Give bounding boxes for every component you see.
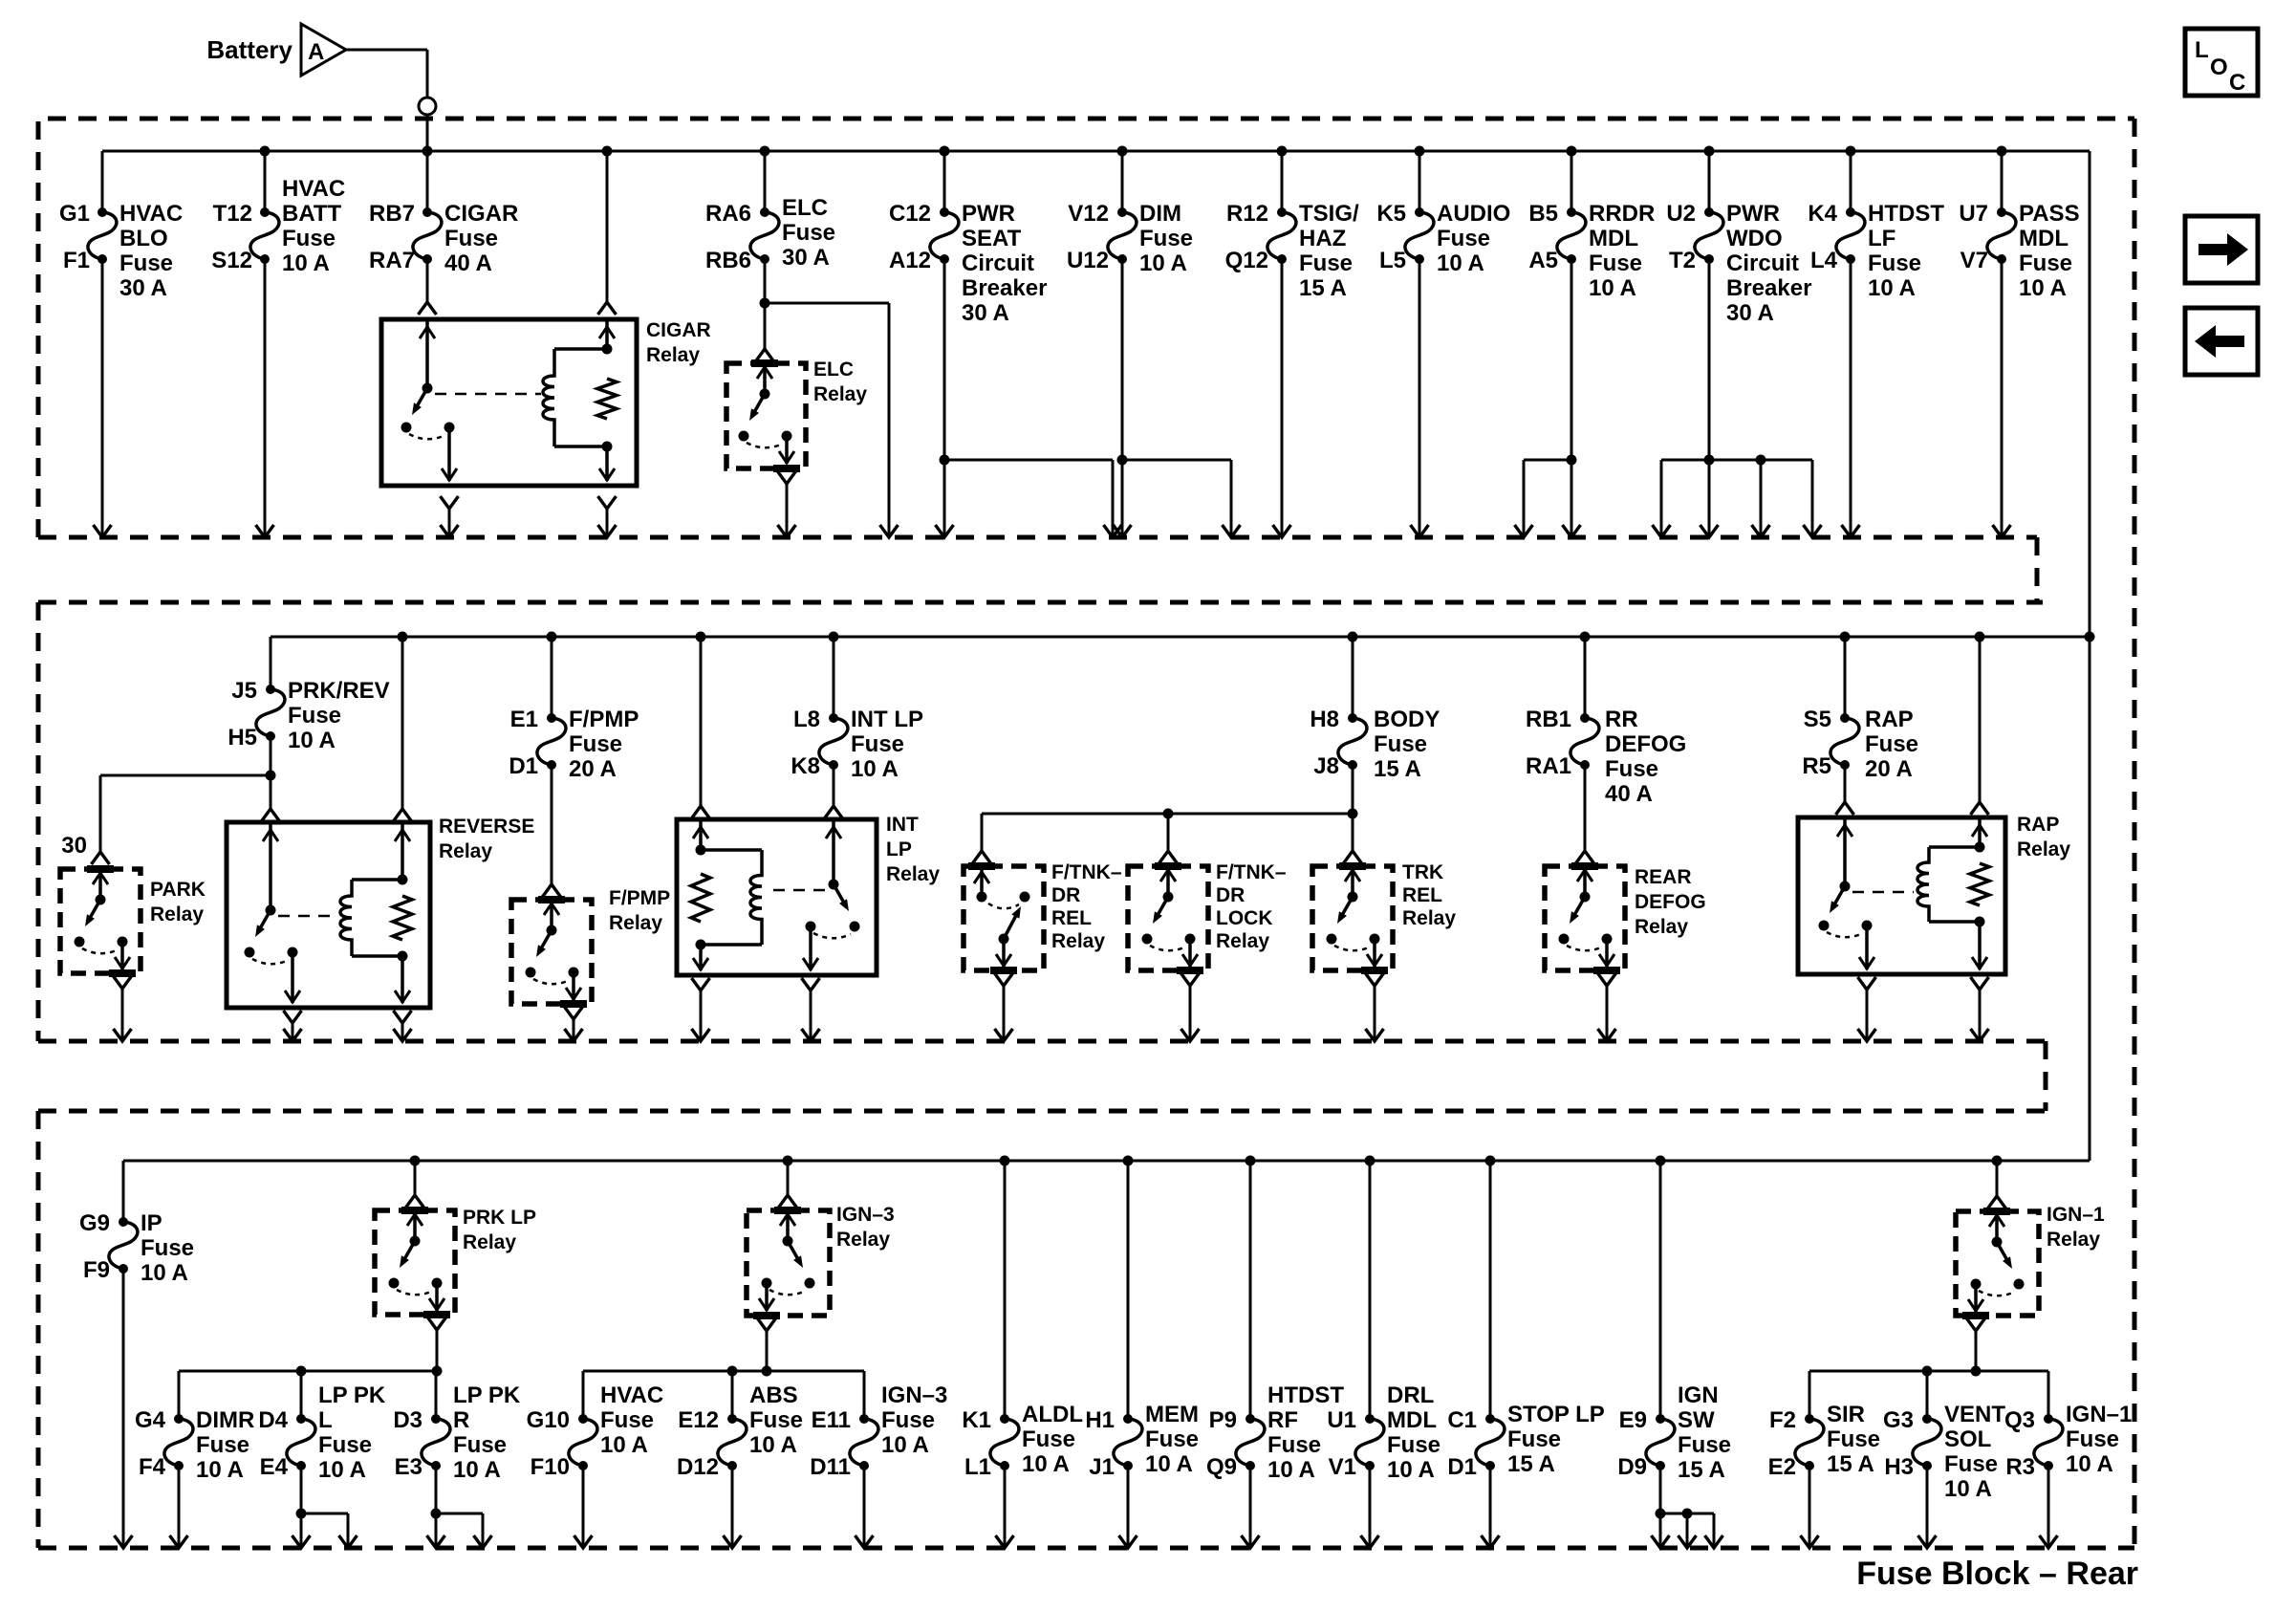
ELC relay switch	[739, 363, 801, 468]
junction LP PK L split	[296, 1509, 307, 1519]
svg-text:10 A: 10 A	[2066, 1451, 2113, 1477]
svg-text:PRK LP: PRK LP	[463, 1207, 536, 1229]
arrow IGN SW split right out	[1705, 1535, 1723, 1548]
svg-text:Fuse: Fuse	[1827, 1426, 1880, 1452]
arrow IGN-3 fuse out	[856, 1535, 874, 1548]
fuse block middle section dashed border	[38, 602, 2046, 1041]
pin S5	[1804, 707, 1831, 732]
label F/TNK-DR LOCK Relay	[1216, 861, 1287, 952]
pin RA7	[369, 248, 415, 273]
svg-text:Fuse: Fuse	[1507, 1426, 1561, 1452]
svg-text:SOL: SOL	[1944, 1426, 1991, 1452]
label INT LP Relay	[886, 814, 940, 885]
fuse CIGAR 40A	[413, 207, 442, 264]
pin L4	[1810, 248, 1838, 273]
wire REAR DEFOG output	[1598, 973, 1616, 1041]
svg-text:30 A: 30 A	[782, 245, 830, 271]
svg-text:L4: L4	[1810, 248, 1838, 273]
svg-text:C1: C1	[1447, 1407, 1477, 1433]
svg-text:Relay: Relay	[1635, 916, 1688, 938]
pin U2	[1666, 201, 1696, 227]
svg-text:P9: P9	[1209, 1407, 1237, 1433]
svg-text:Fuse: Fuse	[1299, 250, 1353, 276]
pin G10	[527, 1407, 570, 1433]
wire RAP coil output	[1971, 977, 1989, 1041]
fuse DIMR 10A	[164, 1414, 193, 1470]
bottom bus wire	[123, 1160, 2090, 1163]
REVERSE relay switch	[245, 822, 301, 1003]
fuse IGN-3 10A	[850, 1414, 878, 1470]
pin D1 stop	[1447, 1454, 1477, 1480]
svg-text:REL: REL	[1402, 884, 1442, 906]
step between middle and bottom section borders	[2044, 1041, 2048, 1111]
fuse DIM 10A	[1108, 207, 1137, 264]
svg-text:Fuse: Fuse	[1944, 1451, 1998, 1477]
relay PARK box	[60, 869, 141, 973]
label CIGAR Fuse 40 A	[444, 201, 518, 276]
pin F10	[531, 1454, 570, 1480]
wire ALDL column	[1004, 1161, 1007, 1548]
junction ELC branch	[760, 298, 770, 309]
pin E4	[260, 1454, 289, 1480]
arrow VENT SOL out	[1918, 1535, 1937, 1548]
relay IGN-3 box	[747, 1210, 830, 1316]
relay F/PMP box	[511, 900, 592, 1004]
svg-text:10 A: 10 A	[1387, 1457, 1435, 1483]
label PWR WDO Circuit Breaker 30 A	[1726, 201, 1811, 326]
label PRK/REV Fuse 10 A	[288, 678, 390, 753]
junction bottom bus / IGN-3 relay	[783, 1156, 793, 1166]
svg-text:Fuse: Fuse	[1374, 731, 1427, 757]
svg-text:Relay: Relay	[2047, 1229, 2100, 1251]
svg-text:E12: E12	[678, 1407, 719, 1433]
pin G1	[59, 201, 90, 227]
pin V1	[1329, 1454, 1356, 1480]
label ALDL Fuse 10 A	[1022, 1402, 1083, 1477]
wire RRDR MDL column	[1570, 151, 1573, 537]
CIGAR relay coil and resistor	[543, 319, 617, 481]
svg-text:V7: V7	[1960, 248, 1988, 273]
fuse HTDST LF 10A	[1836, 207, 1865, 264]
fuse IP 10A	[109, 1217, 138, 1274]
wire TSIG HAZ column	[1281, 151, 1284, 537]
junction bottom bus / PRK LP relay	[410, 1156, 421, 1166]
label RAP Fuse 20 A	[1865, 707, 1918, 782]
pin A12	[889, 248, 931, 273]
svg-text:A5: A5	[1528, 248, 1558, 273]
pin L5	[1379, 248, 1406, 273]
svg-text:10 A: 10 A	[881, 1432, 929, 1458]
label PASS MDL Fuse 10 A	[2019, 201, 2080, 301]
pin E2	[1768, 1454, 1796, 1480]
pin E11	[812, 1407, 851, 1433]
svg-text:20 A: 20 A	[569, 756, 617, 782]
wire PRK LP relay feed	[406, 1161, 424, 1208]
svg-text:Relay: Relay	[1216, 930, 1269, 952]
arrow F/TNK-DR LOCK out	[1181, 1029, 1200, 1041]
pin H1	[1085, 1407, 1115, 1433]
svg-text:D1: D1	[1447, 1454, 1477, 1480]
arrow AUDIO out	[1411, 525, 1429, 537]
relay RAP box	[1798, 817, 2005, 974]
svg-text:AUDIO: AUDIO	[1437, 201, 1510, 227]
svg-text:LP: LP	[886, 838, 912, 860]
label HVAC BLO Fuse 30 A	[119, 201, 183, 301]
svg-text:F10: F10	[531, 1454, 570, 1480]
arrow HVAC BATT out	[256, 525, 274, 537]
svg-text:D3: D3	[393, 1407, 422, 1433]
junction PRK LP output	[432, 1366, 443, 1377]
junction middle bus / INT LP fuse	[829, 632, 839, 642]
fuse STOP LP 15A	[1476, 1414, 1505, 1470]
fuse HVAC BATT 10A	[250, 207, 279, 264]
wire CIGAR relay coil feed	[606, 151, 609, 302]
pin G4	[135, 1407, 166, 1433]
svg-text:Fuse: Fuse	[1139, 226, 1193, 251]
IGN-1 relay switch	[1962, 1211, 2025, 1316]
fuse PASS MDL 10A	[1987, 207, 2016, 264]
svg-text:10 A: 10 A	[1944, 1476, 1992, 1502]
svg-text:Fuse: Fuse	[1868, 250, 1921, 276]
wire MEM column	[1127, 1161, 1130, 1548]
svg-text:10 A: 10 A	[1139, 250, 1187, 276]
label TSIG/HAZ Fuse 15 A	[1299, 201, 1359, 301]
REVERSE relay coil link dashed	[278, 915, 336, 918]
svg-text:ALDL: ALDL	[1022, 1402, 1083, 1427]
svg-text:H8: H8	[1310, 707, 1339, 732]
arrow LP PK L out	[292, 1535, 311, 1548]
svg-text:RB1: RB1	[1526, 707, 1571, 732]
INT LP relay coil link dashed	[773, 889, 826, 892]
distribution wire IGN-1	[1809, 1370, 2048, 1373]
wire IGN-3 relay output	[758, 1318, 776, 1371]
svg-text:T12: T12	[213, 201, 252, 227]
pin RA6	[705, 201, 751, 227]
label IGN-1 Fuse 10 A	[2066, 1402, 2132, 1477]
wire F/TNK-DR LOCK output	[1181, 973, 1200, 1041]
wire PRK/REV to REVERSE relay	[262, 775, 280, 821]
wire BODY column	[1352, 637, 1354, 814]
svg-text:30 A: 30 A	[119, 275, 167, 301]
fuse INT LP 10A	[819, 713, 848, 770]
arrow PWR SEAT branch out	[1104, 525, 1122, 537]
pin R3	[2005, 1454, 2035, 1480]
svg-text:E9: E9	[1619, 1407, 1647, 1433]
label F/TNK-DR REL Relay	[1051, 861, 1122, 952]
svg-text:PARK: PARK	[150, 879, 206, 901]
wire PASS MDL column	[2001, 151, 2004, 537]
svg-text:RA1: RA1	[1526, 753, 1571, 779]
wire INT LP coil output	[692, 978, 710, 1041]
svg-text:HTDST: HTDST	[1267, 1382, 1344, 1408]
svg-text:WDO: WDO	[1726, 226, 1783, 251]
svg-text:SEAT: SEAT	[962, 226, 1022, 251]
arrow PWR WDO branch right out	[1804, 525, 1822, 537]
svg-text:30 A: 30 A	[962, 300, 1009, 326]
svg-text:STOP LP: STOP LP	[1507, 1402, 1605, 1427]
pin D1	[509, 753, 538, 779]
wire ELC fuse column	[764, 151, 767, 303]
label SIR Fuse 15 A	[1827, 1402, 1880, 1477]
feed wire right side (top bus to bottom bus)	[2089, 151, 2091, 1161]
svg-text:DIMR: DIMR	[196, 1407, 254, 1433]
junction middle bus / INT LP coil	[696, 632, 706, 642]
svg-text:10 A: 10 A	[288, 728, 336, 753]
svg-text:15 A: 15 A	[1827, 1451, 1874, 1477]
RAP relay switch	[1819, 817, 1875, 969]
svg-text:ELC: ELC	[782, 195, 828, 221]
junction bottom bus / HTDST RF	[1245, 1156, 1256, 1166]
svg-text:DIM: DIM	[1139, 201, 1181, 227]
pin K4	[1808, 201, 1837, 227]
pin E9	[1619, 1407, 1647, 1433]
junction middle bus / feed wire	[2085, 632, 2095, 642]
node 30	[61, 833, 87, 859]
pin U7	[1959, 201, 1988, 227]
INT LP relay coil and resistor	[691, 819, 762, 970]
svg-text:Fuse: Fuse	[318, 1432, 372, 1458]
wire IGN-3 relay feed	[779, 1161, 797, 1208]
junction IGN SW split a	[1656, 1509, 1666, 1519]
fuse MEM 10A	[1114, 1414, 1142, 1470]
wire STOP LP column	[1489, 1161, 1492, 1548]
svg-text:Relay: Relay	[439, 840, 492, 862]
junction LP PK R split	[431, 1509, 442, 1519]
svg-text:U1: U1	[1327, 1407, 1356, 1433]
relay INT LP box	[677, 819, 877, 975]
junction IGN-3 output	[762, 1366, 772, 1377]
fuse BODY 15A	[1338, 713, 1367, 770]
top bus wire	[102, 150, 2090, 153]
wire LP PK L column	[300, 1371, 303, 1513]
wire INT LP fuse column	[825, 637, 843, 818]
page-continue arrow right box	[2185, 216, 2258, 283]
wire IGN SW split	[1660, 1513, 1714, 1548]
svg-text:F4: F4	[139, 1454, 166, 1480]
svg-text:10 A: 10 A	[1145, 1451, 1193, 1477]
REAR DEFOG relay switch	[1559, 866, 1621, 970]
svg-text:F2: F2	[1769, 1407, 1796, 1433]
middle bus wire	[271, 636, 2090, 639]
junction bottom bus / DRL MDL	[1365, 1156, 1375, 1166]
arrow RAP coil out	[1971, 1029, 1989, 1041]
arrow LP PK L split out	[339, 1535, 357, 1548]
svg-text:MDL: MDL	[1387, 1407, 1437, 1433]
svg-text:D4: D4	[258, 1407, 288, 1433]
label F/PMP Fuse 20 A	[569, 707, 639, 782]
fuse HTDST RF 10A	[1236, 1414, 1265, 1470]
wire PWR WDO column	[1708, 151, 1711, 537]
svg-text:Fuse: Fuse	[288, 703, 341, 729]
fuse RAP 20A	[1830, 713, 1859, 770]
svg-text:Fuse: Fuse	[1589, 250, 1642, 276]
svg-text:10 A: 10 A	[318, 1457, 366, 1483]
arrow INT LP coil out	[692, 1029, 710, 1041]
label PRK LP Relay	[463, 1207, 536, 1253]
label IGN-1 Relay	[2047, 1204, 2105, 1251]
wire battery to bus	[346, 50, 427, 98]
svg-text:E11: E11	[812, 1407, 851, 1433]
arrow LP PK R out	[427, 1535, 445, 1548]
junction top bus / CIGAR relay coil	[602, 146, 613, 157]
label VENT SOL Fuse 10 A	[1944, 1402, 2005, 1502]
label MEM Fuse 10 A	[1145, 1402, 1199, 1477]
svg-text:Q3: Q3	[2004, 1407, 2035, 1433]
PRK LP relay switch	[389, 1210, 451, 1315]
wire PWR SEAT branch	[944, 460, 1113, 537]
pin J1	[1089, 1454, 1115, 1480]
right dashed border (all sections)	[2133, 119, 2137, 1548]
pin K5	[1376, 201, 1406, 227]
wire HVAC BATT column	[264, 151, 267, 537]
arrow IGN SW split mid out	[1679, 1535, 1697, 1548]
svg-text:Fuse: Fuse	[2066, 1426, 2119, 1452]
pin F9	[83, 1257, 110, 1283]
svg-text:10 A: 10 A	[453, 1457, 501, 1483]
label ELC Fuse 30 A	[782, 195, 835, 271]
svg-text:ABS: ABS	[749, 1382, 798, 1408]
svg-text:IGN: IGN	[1678, 1382, 1719, 1408]
svg-text:S5: S5	[1804, 707, 1831, 732]
pin H5	[227, 725, 257, 751]
svg-text:U2: U2	[1666, 201, 1696, 227]
relay CIGAR box	[381, 319, 637, 486]
step between top and middle section borders	[2035, 537, 2040, 602]
junction middle bus / RAP fuse	[1840, 632, 1851, 642]
svg-text:G3: G3	[1883, 1407, 1914, 1433]
wire INT LP switch output	[802, 978, 820, 1041]
wire F/PMP relay output	[565, 1007, 583, 1041]
wire IGN-1 fuse column	[2047, 1371, 2050, 1548]
svg-text:HTDST: HTDST	[1868, 201, 1944, 227]
svg-text:10 A: 10 A	[1267, 1457, 1315, 1483]
svg-text:10 A: 10 A	[2019, 275, 2067, 301]
label IGN-3 Fuse 10 A	[881, 1382, 947, 1458]
label AUDIO Fuse 10 A	[1437, 201, 1510, 276]
wire LP PK R column	[435, 1371, 438, 1513]
pin J8	[1313, 753, 1339, 779]
wire IGN SW column	[1659, 1161, 1662, 1513]
wire branch BODY to F/TNK relays	[982, 814, 1353, 851]
wire PARK relay output	[114, 976, 132, 1041]
svg-text:REVERSE: REVERSE	[439, 816, 534, 838]
svg-text:Fuse: Fuse	[1437, 226, 1490, 251]
arrow ALDL out	[996, 1535, 1014, 1548]
wire HTDST RF column	[1249, 1161, 1252, 1548]
junction top bus / DIM	[1117, 146, 1128, 157]
svg-text:J1: J1	[1089, 1454, 1115, 1480]
label REAR DEFOG Relay	[1635, 866, 1706, 938]
fuse LP PK R 10A	[422, 1414, 450, 1470]
pin K1	[962, 1407, 991, 1433]
svg-text:Fuse: Fuse	[1865, 731, 1918, 757]
svg-text:HVAC: HVAC	[119, 201, 183, 227]
label F/PMP Relay	[609, 887, 670, 934]
svg-text:Q9: Q9	[1206, 1454, 1237, 1480]
svg-text:RB7: RB7	[369, 201, 415, 227]
svg-text:Relay: Relay	[886, 863, 940, 885]
svg-text:Relay: Relay	[813, 383, 867, 405]
fuse ELC 30A	[750, 207, 779, 264]
svg-text:J8: J8	[1313, 753, 1339, 779]
junction PRK/REV to PARK branch	[266, 771, 276, 781]
svg-text:Fuse: Fuse	[782, 220, 835, 246]
arrow RRDR MDL out	[1563, 525, 1581, 537]
pin E3	[395, 1454, 422, 1480]
svg-text:L1: L1	[964, 1454, 991, 1480]
junction middle bus / F-PMP	[547, 632, 557, 642]
svg-text:REAR: REAR	[1635, 866, 1692, 888]
pin G3	[1883, 1407, 1914, 1433]
junction top bus / RRDR MDL	[1567, 146, 1577, 157]
arrow ELC relay out	[778, 525, 796, 537]
label DRL MDL Fuse 10 A	[1387, 1382, 1440, 1483]
svg-text:E3: E3	[395, 1454, 422, 1480]
pin P9	[1209, 1407, 1237, 1433]
IGN-3 relay switch	[753, 1210, 815, 1316]
wire REVERSE switch output	[284, 1011, 302, 1041]
junction middle bus / RR DEFOG	[1580, 632, 1591, 642]
svg-text:B5: B5	[1528, 201, 1558, 227]
fuse ALDL 10A	[990, 1414, 1019, 1470]
svg-text:R12: R12	[1226, 201, 1268, 227]
label CIGAR Relay	[646, 319, 711, 366]
svg-text:Relay: Relay	[2017, 838, 2070, 860]
svg-text:Relay: Relay	[646, 344, 700, 366]
svg-text:IGN–1: IGN–1	[2047, 1204, 2105, 1226]
wire DIM column	[1121, 151, 1124, 537]
svg-text:K8: K8	[791, 753, 820, 779]
svg-text:HAZ: HAZ	[1299, 226, 1346, 251]
wire PWR SEAT column	[943, 151, 946, 537]
pin H3	[1884, 1454, 1914, 1480]
junction distribution / VENT SOL	[1922, 1366, 1933, 1377]
svg-text:R3: R3	[2005, 1454, 2035, 1480]
relay PRK LP box	[375, 1210, 455, 1315]
svg-text:U12: U12	[1067, 248, 1109, 273]
svg-text:R5: R5	[1802, 753, 1831, 779]
arrow ELC branch out	[880, 525, 899, 537]
arrow TSIG HAZ out	[1273, 525, 1291, 537]
arrow RRDR MDL branch out	[1515, 525, 1533, 537]
junction top bus / PWR SEAT	[940, 146, 950, 157]
arrow REVERSE switch out	[284, 1029, 302, 1041]
svg-text:Fuse: Fuse	[1267, 1432, 1321, 1458]
svg-text:LP PK: LP PK	[453, 1382, 521, 1408]
distribution wire IGN-3	[583, 1370, 864, 1373]
svg-text:Circuit: Circuit	[1726, 250, 1799, 276]
wire branch to F/TNK-DR LOCK	[1159, 814, 1178, 863]
svg-text:TSIG/: TSIG/	[1299, 201, 1359, 227]
arrow IGN SW out	[1652, 1535, 1670, 1548]
svg-text:REL: REL	[1051, 907, 1092, 929]
junction top bus / PASS MDL	[1997, 146, 2007, 157]
junction DIM branch	[1117, 455, 1128, 466]
svg-text:F/TNK–: F/TNK–	[1216, 861, 1287, 883]
svg-text:10 A: 10 A	[600, 1432, 648, 1458]
svg-text:SW: SW	[1678, 1407, 1715, 1433]
arrow HTDST RF out	[1242, 1535, 1260, 1548]
caption Fuse Block - Rear	[1856, 1556, 2138, 1592]
label RRDR MDL Fuse 10 A	[1589, 201, 1655, 301]
junction IGN-1 output	[1971, 1366, 1982, 1377]
junction PWR SEAT branch	[940, 455, 950, 466]
arrow ABS out	[724, 1535, 742, 1548]
svg-text:Fuse: Fuse	[881, 1407, 935, 1433]
wire bottom HVAC column	[582, 1371, 585, 1548]
svg-text:H3: H3	[1884, 1454, 1914, 1480]
svg-text:INT LP: INT LP	[851, 707, 923, 732]
